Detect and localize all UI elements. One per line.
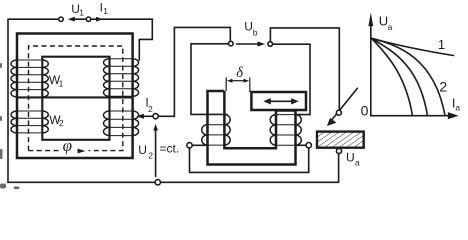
voltage arrow U1 [68,17,86,22]
label I1 [100,0,109,16]
label Ua load [346,151,360,168]
core middle bar [17,96,133,98]
movable arrow inside yoke [263,98,298,104]
wire top right with current arrow I1 [91,17,153,60]
air gap dimension delta [226,77,250,92]
terminal circle T1 [59,17,63,21]
svg-text:U: U [244,20,253,34]
switch blade arrow electrode [327,88,358,126]
winding right leg (middle) [276,115,296,146]
wire B up to switch [270,28,339,110]
graph y-axis [368,13,373,116]
terminal circle I2 [153,114,158,119]
winding W1 right leg [110,59,133,97]
voltage arrow U2 [153,124,158,177]
svg-text:b: b [253,27,258,37]
winding W1 left leg [17,60,42,97]
wire I2 with arrow [136,114,153,119]
label Ub [244,20,258,38]
wire node A to left winding top [191,44,229,115]
load hatched box [317,132,364,148]
svg-text:U: U [346,151,355,165]
curve 2 characteristic steep [372,38,445,115]
load terminal circle [336,148,341,153]
label U2 = ct. [138,141,179,160]
svg-text:2: 2 [59,118,64,128]
svg-text:a: a [388,22,393,32]
curve 4 characteristic [372,38,413,116]
wire I2 to middle [158,27,174,116]
wire right terminal to winding bottom [296,144,307,146]
wire from I2 terminal to node A [174,27,230,41]
switch hinge circle [336,110,341,115]
svg-text:a: a [455,103,460,113]
label W2 [49,113,64,128]
core outer rectangle [17,34,133,159]
right winding terminal circle [306,143,311,148]
flux arrow [78,149,86,154]
svg-text:2: 2 [439,79,447,95]
flux path dashed [29,46,123,151]
terminal circle on bus [155,180,160,185]
svg-text:U: U [138,143,147,157]
voltage arrow Ub [237,41,266,46]
svg-text:2: 2 [148,150,153,160]
svg-text:0: 0 [361,103,369,119]
wire B to right winding top [273,44,311,114]
winding left leg (middle) [208,115,225,146]
label I2 [145,95,153,114]
label U1 [71,2,84,18]
label Ia graph [452,96,461,113]
svg-text:1: 1 [79,7,84,17]
svg-text:2: 2 [148,104,153,114]
label Ua graph [379,14,393,32]
wire left terminal to winding bottom [192,144,205,146]
curve 3 characteristic [372,38,428,116]
terminal circle B [268,42,273,47]
svg-text:a: a [355,158,360,168]
bottom bus wire [8,181,339,183]
svg-text:1: 1 [438,37,445,52]
svg-text:1: 1 [103,6,108,16]
graph x-axis [371,112,459,119]
svg-text:=ct.: =ct. [160,141,180,155]
terminal circle T2 [86,17,90,21]
U-core of regulator [208,91,296,165]
left winding terminal circle [187,143,192,148]
svg-text:φ: φ [63,136,72,155]
svg-text:1: 1 [59,79,64,89]
label W1 [49,73,64,88]
wire top feed left [8,19,58,182]
winding W2 right leg [110,111,133,136]
curve 1 flat characteristic [372,38,454,55]
core window rectangle [42,57,109,140]
link wire under core [190,148,309,173]
svg-text:δ: δ [236,65,243,81]
terminal circle A [229,41,234,46]
scan speck marks [0,63,20,189]
movable yoke box [251,92,306,110]
winding W2 left leg [17,111,42,133]
wire load to bus [338,154,340,183]
